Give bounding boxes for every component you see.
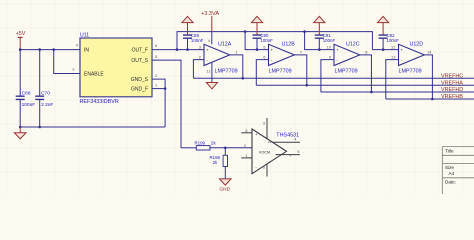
node junction gnd rail at C88 bbox=[19, 126, 22, 129]
node junction U12D out bbox=[431, 98, 434, 101]
svg-text:C88: C88 bbox=[22, 91, 31, 97]
svg-text:U12B: U12B bbox=[282, 42, 296, 48]
wire U12C output bbox=[360, 55, 372, 92]
pin 5 stub THS4531 OUT bbox=[276, 154, 300, 156]
svg-text:OUT_S: OUT_S bbox=[131, 58, 148, 64]
svg-text:GND_F: GND_F bbox=[131, 87, 148, 93]
node junction U12B out bbox=[306, 84, 309, 87]
wire U12A feedback bbox=[193, 60, 204, 79]
wire U12A output bbox=[230, 55, 243, 78]
svg-text:10: 10 bbox=[327, 44, 332, 49]
wire +5V rail to U11 IN bbox=[20, 49, 80, 51]
node junction at ENABLE tap bbox=[52, 48, 55, 51]
node junction GND pins bbox=[164, 87, 167, 90]
op-amp U12D LMP7709 bbox=[399, 42, 425, 75]
ground symbol left bbox=[14, 127, 26, 139]
svg-text:GND: GND bbox=[219, 187, 230, 193]
svg-text:14: 14 bbox=[427, 49, 432, 54]
svg-text:U12C: U12C bbox=[346, 42, 360, 48]
svg-text:ENABLE: ENABLE bbox=[84, 72, 104, 78]
node junction U12C out bbox=[370, 91, 373, 94]
capacitor C70 2.2nF bbox=[35, 50, 53, 127]
svg-text:100nF: 100nF bbox=[260, 38, 273, 43]
op-amp U12B LMP7709 bbox=[269, 42, 296, 75]
svg-text:VREFHA: VREFHA bbox=[441, 80, 463, 86]
wire R199 to THS4531 pin2 bbox=[210, 147, 252, 149]
svg-text:+5V: +5V bbox=[16, 31, 26, 37]
svg-text:LMP7709: LMP7709 bbox=[269, 69, 292, 75]
svg-text:Date:: Date: bbox=[445, 179, 456, 184]
wire tap to U12B +in bbox=[245, 32, 268, 50]
capacitor C89 100nF bbox=[183, 33, 204, 51]
wire tap to U12D +in bbox=[372, 49, 398, 51]
resistor R198 2k bbox=[210, 148, 228, 179]
node junction rail tap C bbox=[303, 30, 306, 33]
svg-text:V+: V+ bbox=[268, 140, 272, 144]
pin 6 stub THS4531 VS- bbox=[266, 164, 268, 176]
svg-text:100nF: 100nF bbox=[191, 38, 204, 43]
node junction gnd rail at C70 bbox=[38, 126, 41, 129]
node junction at C88 top bbox=[19, 48, 22, 51]
svg-text:GND_S: GND_S bbox=[131, 77, 149, 83]
svg-text:2k: 2k bbox=[211, 141, 216, 146]
node junction at C70 top bbox=[38, 48, 41, 51]
svg-text:LMP7709: LMP7709 bbox=[399, 69, 422, 75]
svg-text:Size: Size bbox=[445, 165, 454, 170]
op-amp U1 THS4531 bbox=[252, 129, 299, 174]
power port +3.3VA bbox=[201, 11, 219, 44]
svg-text:LMP7709: LMP7709 bbox=[335, 69, 358, 75]
svg-text:R199: R199 bbox=[195, 141, 206, 146]
wire U12B feedback bbox=[256, 60, 268, 86]
svg-text:R198: R198 bbox=[210, 155, 221, 160]
wire U12B output bbox=[294, 55, 307, 85]
svg-text:100nF: 100nF bbox=[387, 38, 400, 43]
wire OUT_S down tap bbox=[152, 60, 181, 148]
title block bbox=[442, 147, 474, 194]
wire U12D feedback bbox=[386, 60, 399, 99]
wire U12A V- bbox=[211, 62, 213, 82]
power port +5V bbox=[16, 31, 26, 50]
ground symbol GND below R198 bbox=[219, 179, 231, 193]
wire net VREFHB bbox=[386, 98, 474, 100]
wire reference distribution rail bbox=[177, 32, 372, 50]
power arrow above C91 bbox=[314, 16, 325, 34]
op-amp U12A LMP7709 bbox=[204, 42, 238, 75]
capacitor C90 100nF bbox=[253, 33, 274, 51]
svg-text:+3.3VA: +3.3VA bbox=[201, 11, 219, 17]
resistor R199 2k bbox=[195, 141, 217, 150]
wire net VREFHC bbox=[193, 77, 474, 79]
power arrow above C90 bbox=[251, 16, 262, 34]
pin 8 stub THS4531 bbox=[241, 132, 252, 134]
svg-text:U11: U11 bbox=[80, 33, 89, 39]
pin 3 stub THS4531 VS+ bbox=[266, 118, 268, 139]
pin 4 stub THS4531 OUT bbox=[272, 141, 300, 143]
capacitor C88 100nF bbox=[16, 50, 36, 127]
wire OUT_F to U12A bbox=[152, 49, 204, 51]
svg-text:A4: A4 bbox=[449, 171, 455, 176]
svg-text:100nF: 100nF bbox=[323, 38, 336, 43]
capacitor C91 100nF bbox=[315, 33, 336, 51]
wire U12C feedback bbox=[321, 60, 334, 92]
svg-text:VREFHC: VREFHC bbox=[441, 73, 463, 79]
power arrow above C89 bbox=[182, 16, 193, 34]
ground arrow below U12A bbox=[206, 83, 217, 89]
svg-text:U12D: U12D bbox=[410, 42, 424, 48]
svg-text:U12A: U12A bbox=[218, 42, 232, 48]
pin 1 stub THS4531 bbox=[241, 157, 252, 159]
svg-text:12: 12 bbox=[391, 44, 396, 49]
power arrow above C92 bbox=[378, 16, 389, 34]
wire U12D output bbox=[424, 55, 432, 99]
svg-text:VREFHD: VREFHD bbox=[441, 87, 463, 93]
svg-text:2.2nF: 2.2nF bbox=[41, 102, 53, 108]
svg-text:100nF: 100nF bbox=[22, 102, 36, 108]
node junction U12A out bbox=[242, 77, 245, 80]
svg-text:Title: Title bbox=[445, 148, 454, 153]
svg-text:REF3433IDBVR: REF3433IDBVR bbox=[80, 99, 119, 105]
wire ENABLE jog bbox=[54, 50, 80, 74]
wire GND_F bbox=[152, 88, 165, 90]
capacitor C92 100nF bbox=[379, 33, 400, 51]
node junction signal at rail bbox=[176, 48, 179, 51]
svg-text:VOCM: VOCM bbox=[259, 150, 270, 154]
svg-text:VREFHB: VREFHB bbox=[441, 94, 463, 100]
node junction R198 top bbox=[224, 147, 227, 150]
op-amp U12C LMP7709 bbox=[334, 42, 360, 75]
svg-text:V-: V- bbox=[268, 160, 271, 164]
svg-text:IN: IN bbox=[84, 48, 89, 54]
svg-text:2k: 2k bbox=[213, 160, 218, 165]
node junction rail tap B bbox=[244, 30, 247, 33]
wire ground rail bbox=[20, 126, 165, 128]
regulator U11 REF3433IDBVR bbox=[80, 33, 153, 105]
wire GND_S bbox=[152, 79, 165, 127]
wire net VREFHA bbox=[256, 84, 474, 86]
svg-text:OUT_F: OUT_F bbox=[132, 48, 148, 54]
svg-text:C70: C70 bbox=[41, 91, 50, 97]
wire net VREFHD bbox=[321, 91, 474, 93]
wire OUT_S to R199 bbox=[181, 147, 196, 149]
svg-text:LMP7709: LMP7709 bbox=[215, 69, 238, 75]
wire tap to U12C +in bbox=[305, 32, 334, 50]
svg-text:13: 13 bbox=[391, 55, 396, 60]
